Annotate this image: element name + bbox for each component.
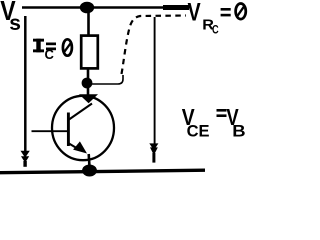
svg-text:s: s <box>9 12 21 35</box>
junction dot top <box>80 2 94 14</box>
svg-text:CE: CE <box>187 123 210 141</box>
wire: base lead <box>32 130 68 132</box>
label V_S <box>0 0 21 35</box>
wire: right rail voltage arrow line <box>154 17 156 145</box>
label V_CE = V_B <box>182 105 246 140</box>
wire: resistor to mid dot <box>87 69 90 81</box>
emitter diagonal with arrowhead <box>69 141 87 153</box>
collector arrowhead <box>79 94 98 103</box>
svg-text:B: B <box>232 121 245 140</box>
label V_RC = 0 <box>188 0 246 37</box>
transistor base bar <box>67 113 70 147</box>
wire: emitter lead to bottom dot <box>87 154 90 167</box>
wire: collector lead from mid dot <box>87 86 90 96</box>
left arrow double chevron <box>21 151 30 167</box>
wire: mid dot right stub with hook <box>91 75 123 84</box>
junction dot bottom <box>82 165 97 177</box>
resistor RC body <box>81 36 98 69</box>
ground rail bottom wire <box>0 170 205 173</box>
junction dot mid <box>82 78 93 89</box>
transistor Q1 circle <box>52 96 114 160</box>
node: supply rail top wire <box>22 6 189 9</box>
svg-text:C: C <box>212 23 219 37</box>
svg-text:V: V <box>188 0 201 26</box>
right arrow double chevron <box>149 143 158 162</box>
label I_C = 0 <box>33 39 72 62</box>
wire: top dot to resistor <box>87 10 90 36</box>
collector diagonal inside circle <box>69 104 92 120</box>
dashed curve to V_RC label <box>122 16 187 75</box>
wire: left rail voltage arrow line <box>24 16 27 152</box>
